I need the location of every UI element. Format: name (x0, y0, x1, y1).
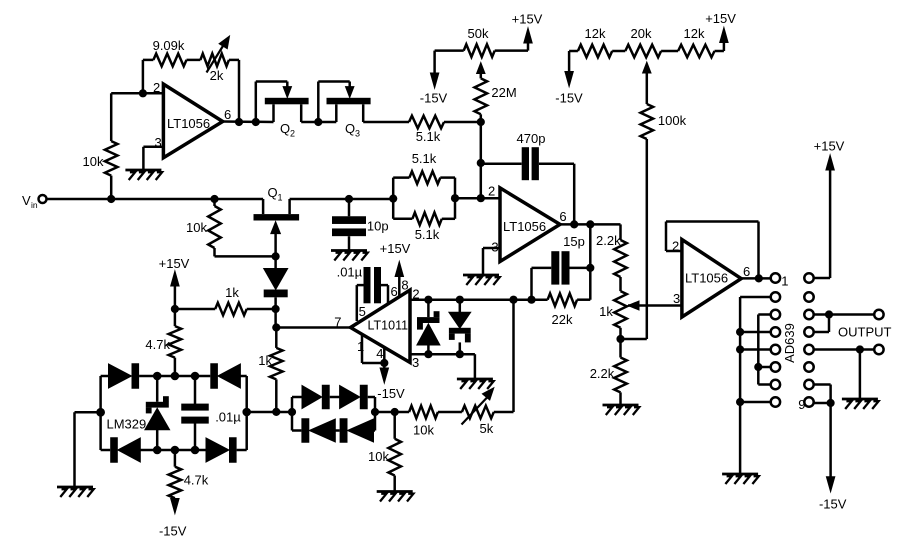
svg-text:+15V: +15V (814, 139, 845, 154)
svg-text:1: 1 (781, 274, 788, 289)
svg-text:22k: 22k (552, 312, 573, 327)
svg-text:V: V (22, 193, 31, 208)
svg-text:+15V: +15V (380, 241, 411, 256)
svg-text:2.2k: 2.2k (590, 366, 615, 381)
svg-text:10k: 10k (413, 423, 434, 438)
svg-text:10p: 10p (367, 219, 389, 234)
svg-text:5: 5 (359, 304, 366, 319)
svg-text:-15V: -15V (420, 91, 448, 106)
svg-text:4.7k: 4.7k (184, 473, 209, 488)
svg-text:10k: 10k (186, 220, 207, 235)
svg-text:-15V: -15V (555, 91, 583, 106)
svg-text:-15V: -15V (377, 386, 405, 401)
svg-text:LT1011: LT1011 (368, 319, 409, 333)
svg-text:LM329: LM329 (107, 417, 147, 432)
svg-text:100k: 100k (658, 113, 687, 128)
svg-text:2: 2 (488, 184, 495, 199)
svg-text:6: 6 (224, 107, 231, 122)
svg-text:2: 2 (290, 129, 295, 139)
svg-text:.01µ: .01µ (215, 410, 241, 425)
svg-text:LT1056: LT1056 (503, 219, 546, 234)
svg-text:2.2k: 2.2k (596, 233, 621, 248)
svg-text:12k: 12k (585, 26, 606, 41)
svg-text:12k: 12k (684, 26, 705, 41)
svg-text:AD639: AD639 (782, 323, 797, 363)
svg-text:1k: 1k (258, 353, 272, 368)
svg-text:3: 3 (673, 291, 680, 306)
svg-text:6: 6 (559, 209, 566, 224)
svg-text:-15V: -15V (819, 497, 847, 512)
svg-text:8: 8 (401, 278, 408, 293)
svg-text:1k: 1k (225, 285, 239, 300)
svg-text:20k: 20k (631, 26, 652, 41)
svg-text:OUTPUT: OUTPUT (838, 325, 892, 340)
svg-text:Q: Q (280, 121, 290, 136)
svg-text:10k: 10k (83, 154, 104, 169)
svg-text:+15V: +15V (159, 256, 190, 271)
svg-text:50k: 50k (468, 26, 489, 41)
svg-text:4.7k: 4.7k (145, 337, 170, 352)
svg-text:9.09k: 9.09k (153, 38, 185, 53)
svg-text:in: in (31, 200, 38, 210)
svg-text:5.1k: 5.1k (412, 151, 437, 166)
svg-text:4: 4 (376, 346, 383, 361)
svg-text:3: 3 (412, 355, 419, 370)
svg-text:2k: 2k (210, 68, 224, 83)
svg-text:Q: Q (345, 121, 355, 136)
svg-text:5k: 5k (480, 421, 494, 436)
svg-text:LT1056: LT1056 (685, 271, 728, 286)
svg-text:.01µ: .01µ (337, 265, 363, 280)
svg-text:Q: Q (268, 185, 278, 200)
svg-text:+15V: +15V (705, 11, 736, 26)
svg-text:10k: 10k (368, 449, 389, 464)
svg-text:22M: 22M (491, 85, 516, 100)
svg-text:9: 9 (798, 397, 805, 412)
svg-text:1k: 1k (599, 304, 613, 319)
svg-text:470p: 470p (517, 131, 546, 146)
svg-text:6: 6 (391, 284, 398, 299)
svg-text:15p: 15p (563, 234, 585, 249)
svg-text:LT1056: LT1056 (167, 116, 210, 131)
svg-text:1: 1 (278, 193, 283, 203)
svg-text:5.1k: 5.1k (415, 227, 440, 242)
svg-text:+15V: +15V (512, 12, 543, 27)
svg-text:6: 6 (743, 264, 750, 279)
svg-text:5.1k: 5.1k (416, 129, 441, 144)
svg-text:-15V: -15V (159, 524, 187, 539)
svg-text:3: 3 (355, 129, 360, 139)
